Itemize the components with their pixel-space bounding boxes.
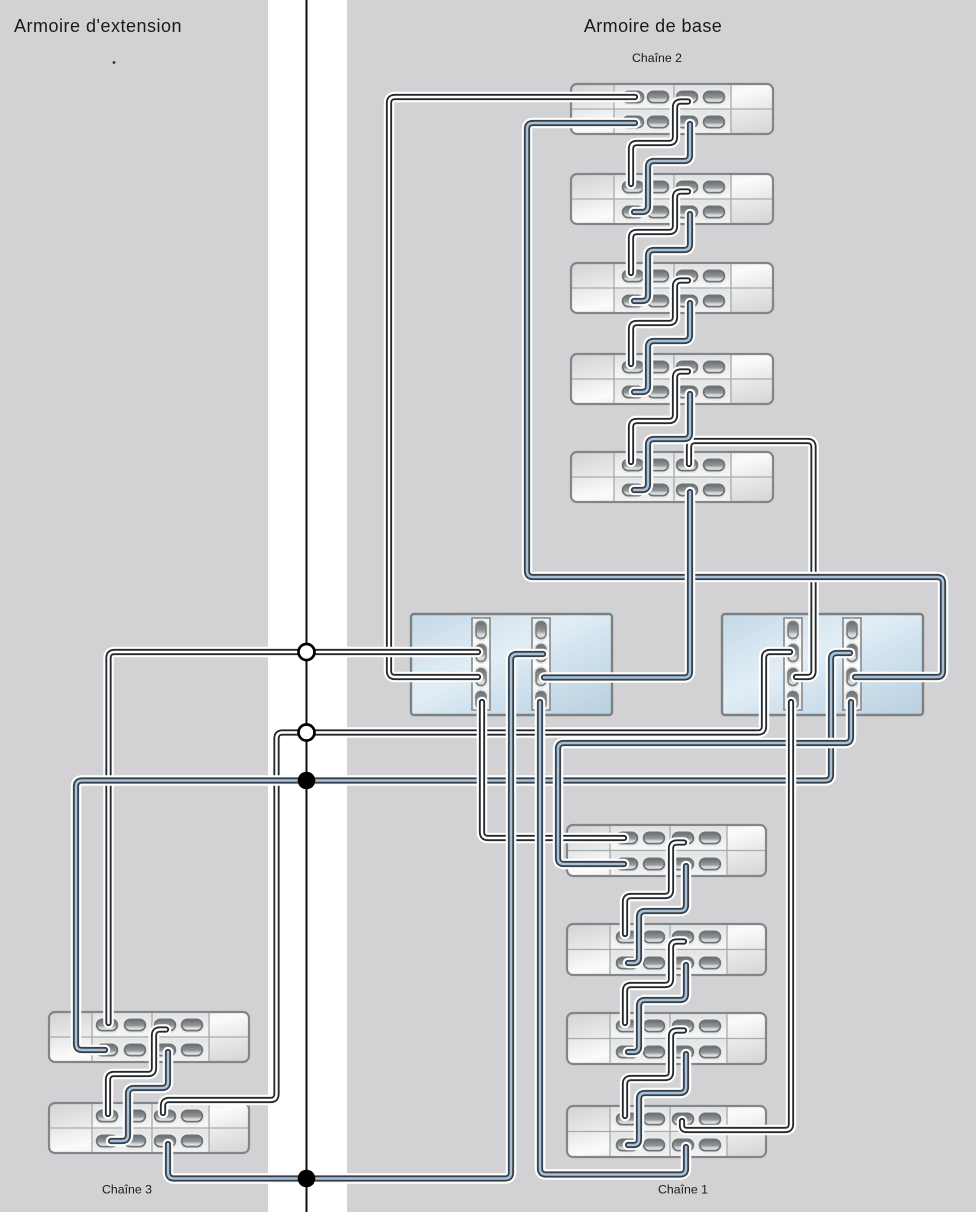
wire: chain3 shelf2 p3 bottom to controller1 strip2 port2 [168, 654, 543, 1179]
wire: chain3 shelf1 p3 top to shelf2 p1 top [108, 1030, 166, 1115]
wire: controller2 strip2 port2 to chain3 shelf1 p1 bottom [76, 653, 850, 1050]
wire: chain2 shelf4 p3 top to shelf5 p1 top [631, 372, 688, 463]
wire: chain2 shelf3 p3 bottom to shelf4 p1 bottom [634, 303, 690, 392]
disk shelf chain2-4 [571, 354, 773, 404]
wire: chain1 shelf2 p3 bottom to shelf3 p1 bottom [628, 965, 686, 1052]
controller head 2 [722, 614, 923, 715]
controller head 1 [411, 614, 612, 715]
disk shelf chain2-2 [571, 174, 773, 224]
wire: chain2 shelf5 IOM-A p3 to controller2 strip1 port3 [689, 441, 814, 677]
wire: chain1 shelf2 p3 top to shelf3 p1 top [625, 942, 684, 1024]
wire: chain2 shelf3 p3 top to shelf4 p1 top [631, 281, 688, 365]
wire: chain2 shelf2 p3 bottom to shelf3 p1 bottom [634, 214, 690, 301]
disk shelf chain3-1 [49, 1012, 249, 1062]
svg-text:Armoire de base: Armoire de base [584, 16, 722, 36]
svg-text:Chaîne 1: Chaîne 1 [658, 1183, 708, 1197]
wire: chain1 shelf1 p3 bottom to shelf2 p1 bottom [628, 866, 686, 963]
base cabinet panel [347, 0, 976, 1212]
disk shelf chain1-4 [567, 1106, 766, 1157]
disk shelf chain1-3 [567, 1013, 766, 1064]
cabinet boundary line [306, 0, 308, 1212]
wire: chain2 shelf1 p3 bottom to shelf2 p1 bottom [634, 124, 690, 212]
svg-text:Chaîne 3: Chaîne 3 [102, 1183, 152, 1197]
wire: controller1 strip2 port4 to chain1 shelf4 p3 bottom [540, 702, 686, 1175]
svg-text:Chaîne 2: Chaîne 2 [632, 51, 682, 65]
disk shelf chain2-3 [571, 263, 773, 313]
disk shelf chain1-1 [567, 825, 766, 876]
junction circle B (open) [299, 725, 315, 741]
wire: controller2 strip1 port4 to chain1 shelf4 p3 top [682, 702, 791, 1130]
wire: chain1 shelf3 p3 top to shelf4 p1 top [625, 1031, 684, 1117]
wire: chain2 shelf4 p3 bottom to shelf5 p1 bottom [634, 394, 690, 490]
disk shelf chain3-2 [49, 1103, 249, 1153]
disk shelf chain2-1 [571, 84, 773, 134]
wire: controller2 strip2 port4 to chain1 shelf1 p1 bottom [558, 702, 851, 864]
wire: controller1 strip1 port4 to chain1 shelf1 p1 top [482, 702, 624, 838]
wire: controller1 strip1 port3 to chain2 shelf1 p1 top [389, 97, 635, 677]
junction circle A (open) [299, 644, 315, 660]
wire: chain2 shelf2 p3 top to shelf3 p1 top [631, 192, 688, 274]
wire: chain2 shelf1 p3 top to shelf2 p1 top [631, 102, 688, 185]
wire: chain3 shelf1 p3 bottom to shelf2 p1 bottom [111, 1052, 168, 1141]
junction dot D (filled) [298, 1170, 316, 1188]
junction dot C (filled) [298, 772, 316, 790]
wire: controller2 strip1 port2 to chain3 shelf2 p3 top [163, 652, 790, 1113]
disk shelf chain1-2 [567, 924, 766, 975]
wire: chain1 shelf3 p3 bottom to shelf4 p1 bottom [628, 1054, 686, 1145]
wire: controller1 strip1 port2 to chain3 shelf1 p1 top [109, 652, 479, 1023]
wire: controller2 strip2 port3 to chain2 shelf1 p1 bottom [527, 123, 943, 677]
svg-text:Armoire d'extension: Armoire d'extension [14, 16, 182, 36]
extension cabinet panel [0, 0, 268, 1212]
disk shelf chain2-5 [571, 452, 773, 502]
wire: chain2 shelf5 IOM-B p3 to controller1 strip2 port3 [544, 492, 690, 678]
wire: chain1 shelf1 p3 top to shelf2 p1 top [625, 843, 684, 935]
stray period [113, 61, 116, 64]
